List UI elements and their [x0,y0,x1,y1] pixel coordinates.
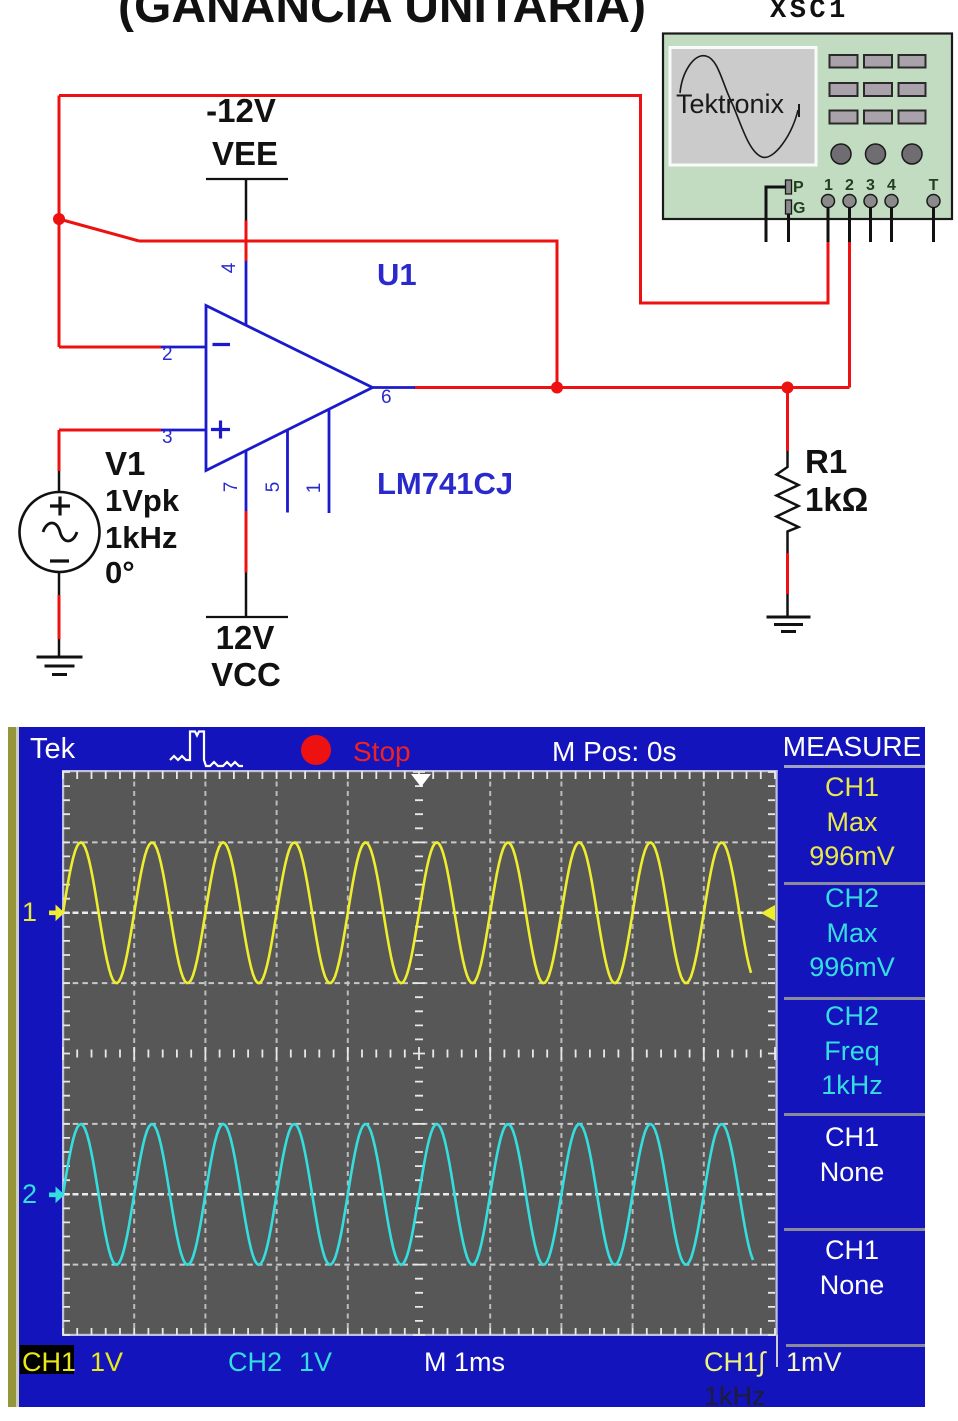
CH1 right trigger marker [761,905,775,921]
resistor R1 [777,451,799,553]
svg-text:5: 5 [263,482,284,493]
oscilloscope XSC1 body [663,34,952,220]
pin 7 wire [245,451,248,618]
MEASURE title [779,731,925,763]
VCC power rail [206,616,288,618]
wire left vertical [58,96,61,348]
ground R1 [767,617,811,632]
svg-text:7: 7 [221,482,242,493]
schematic title [0,0,767,34]
svg-text:2: 2 [845,177,854,194]
V1 minus symbol [50,559,69,562]
grid edge ticks left [63,772,70,1335]
svg-text:VEE: VEE [212,135,278,172]
CH1 waveform yellow [63,842,751,983]
grid edge ticks top [63,771,775,779]
bottom bar trigger freq [704,1381,766,1412]
bottom bar CH1 highlight [20,1345,74,1374]
wire top feedback to scope ch1 [59,96,828,304]
op-amp minus input wire blue [161,346,206,349]
bottom bar CH1 scale 1V [90,1347,123,1378]
node junction output-feedback [551,382,563,394]
svg-text:3: 3 [866,177,875,194]
bottom bar CH2 label [228,1347,282,1378]
panel separators [784,882,925,885]
MEASURE separator [784,765,925,768]
op-amp U1 triangle [206,306,373,471]
CH1 left marker arrow [49,905,65,922]
XSC1 pin P pad [786,180,792,194]
VEE power rail [206,178,288,180]
grid center column ticks [413,772,425,1335]
CH2 left marker arrow [49,1187,65,1204]
svg-text:VCC: VCC [211,656,281,693]
XSC1 screen sine logo [680,56,798,158]
XSC1 button row 1 [830,55,926,68]
svg-text:3: 3 [162,427,173,448]
bottom bar trigger source [704,1347,765,1378]
CH2 waveform cyan [63,1124,753,1265]
wire VEE stem black [245,179,248,221]
schematic SVG placeholder [0,0,958,727]
wire inverting input red [59,346,161,349]
XSC1 terminal labels 1 2 3 4 T [824,177,939,194]
M Pos label [552,736,676,768]
svg-text:G: G [793,200,805,217]
svg-text:Tektronix: Tektronix [676,89,785,119]
Tek label [30,733,75,766]
wire VEE stem red [245,221,248,262]
CH2 channel number [22,1179,37,1210]
wire diagonal from junction [59,219,139,241]
op-amp plus symbol [211,421,230,439]
grid edge ticks bottom [63,1328,775,1335]
ground V1 [37,657,83,675]
svg-text:P: P [793,179,804,196]
XSC1 G wire [787,214,790,242]
wire non-inverting input red [59,429,161,432]
V1 sine symbol [43,523,77,541]
wire scope ch2 vertical [848,242,851,388]
svg-text:2: 2 [162,344,173,365]
svg-text:6: 6 [381,387,392,408]
grid edge ticks right [768,772,775,1335]
pin 5 wire [286,430,289,513]
oscilloscope screenshot [8,727,925,1407]
svg-text:T: T [929,177,939,194]
measure box 3 CH2 Freq [779,999,925,1103]
XSC1 screen [670,48,816,166]
bottom bar CH2 scale 1V [299,1347,332,1378]
scope bezel strip [8,727,16,1407]
top bar waveform icon [170,732,243,767]
svg-text:1: 1 [304,483,325,494]
svg-text:V1: V1 [105,445,145,482]
node junction output-R1 [782,382,794,394]
svg-text:1: 1 [824,177,833,194]
XSC1 trademark tick [798,104,800,117]
pin 1 wire [328,409,331,513]
grid left edge light line [62,770,64,1336]
Stop label [353,736,411,768]
svg-text:12V: 12V [216,619,275,656]
source V1 circle [20,492,100,572]
op-amp plus input wire blue [161,429,206,432]
wire op-amp output [414,386,850,389]
wire V1 top black [58,471,61,492]
measure box 1 CH1 Max [779,770,925,874]
bottom bar M 1ms [424,1347,505,1378]
svg-text:1kΩ: 1kΩ [805,481,868,518]
svg-text:4: 4 [887,177,896,194]
XSC1 button row 3 [830,111,926,124]
XSC1 button row 2 [830,83,926,96]
XSC1 pin stubs [828,207,934,242]
grid top edge light line [62,770,778,772]
trigger position arrow [411,774,431,787]
svg-text:XSC1: XSC1 [770,0,849,26]
svg-text:U1: U1 [377,257,417,292]
svg-text:LM741CJ: LM741CJ [377,466,513,501]
CH1 channel number [22,897,37,928]
bottom bar CH1 label [22,1347,76,1378]
op-amp output wire blue [373,386,416,389]
svg-text:-12V: -12V [206,92,276,129]
svg-text:1Vpk: 1Vpk [105,483,180,518]
svg-text:4: 4 [219,262,240,273]
stop indicator circle [301,735,331,765]
wire R1 top red [786,388,789,452]
wire V1 bottom [58,572,61,657]
measure box 4 CH1 None [779,1120,925,1189]
grid vertical dashed lines [134,772,704,1335]
svg-text:1kHz: 1kHz [105,520,177,555]
wire feedback horizontal [139,241,557,388]
op-amp minus symbol [213,343,231,346]
node junction left [53,213,65,225]
measure box 2 CH2 Max [779,881,925,985]
V1 plus symbol [50,497,70,516]
channel zero dashed lines [63,913,775,1195]
wire R1 bottom red [786,553,789,594]
wire V1 top red [58,430,61,471]
grid center row ticks [63,1047,775,1060]
scope grid background [62,770,777,1336]
XSC1 P wire [766,187,786,242]
XSC1 pin G pad [786,200,792,214]
wire pin4 blue [245,261,248,325]
scope graticule and waveforms [8,727,925,1407]
bottom bar trigger level [786,1347,842,1378]
grid right edge light line [776,770,778,1336]
svg-text:R1: R1 [805,443,847,480]
grid horizontal dashed lines [63,842,775,1264]
svg-text:0°: 0° [105,555,135,590]
XSC1 knobs [831,144,922,164]
wire R1 ground black [786,594,789,617]
grid bottom edge light line [62,1334,778,1336]
XSC1 terminal circles [822,195,941,208]
measure box 5 CH1 None [779,1233,925,1302]
bottom bar separator [776,1335,778,1367]
